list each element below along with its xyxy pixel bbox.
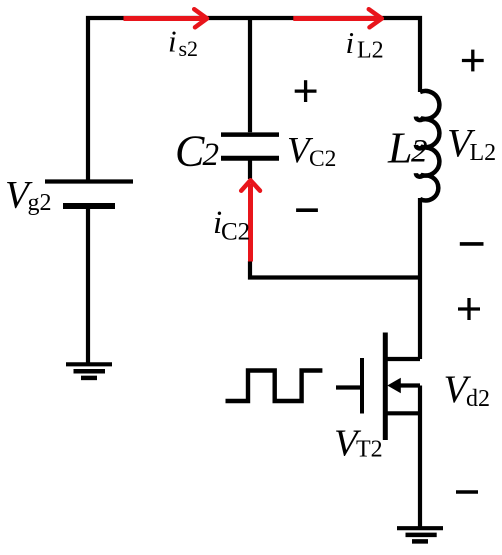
- svg-text:L2: L2: [357, 38, 384, 64]
- svg-text:C2: C2: [221, 219, 250, 246]
- svg-text:2: 2: [203, 137, 220, 173]
- svg-text:2: 2: [411, 134, 428, 170]
- svg-text:L: L: [387, 124, 412, 173]
- svg-text:C: C: [175, 127, 205, 176]
- svg-text:d2: d2: [466, 386, 490, 412]
- svg-text:i: i: [346, 25, 355, 60]
- svg-text:g2: g2: [28, 190, 52, 216]
- svg-text:i: i: [168, 24, 177, 59]
- svg-text:L2: L2: [470, 140, 497, 166]
- svg-text:T2: T2: [356, 437, 383, 463]
- svg-text:s2: s2: [179, 36, 199, 61]
- svg-text:C2: C2: [309, 146, 336, 172]
